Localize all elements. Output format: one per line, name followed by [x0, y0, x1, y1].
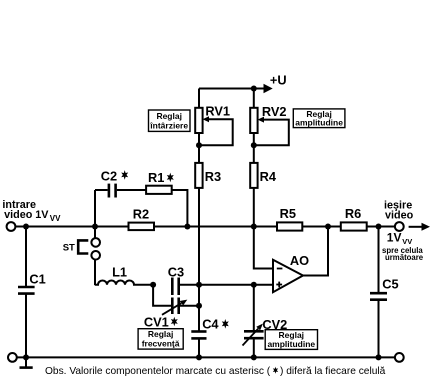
svg-text:R4: R4: [260, 169, 277, 184]
svg-text:Obs. Valorile componentelor ma: Obs. Valorile componentelor marcate cu a…: [45, 366, 271, 377]
svg-text:) diferă la fiecare celulă: ) diferă la fiecare celulă: [280, 366, 386, 377]
svg-text:C2: C2: [101, 169, 117, 184]
svg-text:CV2: CV2: [262, 317, 287, 332]
svg-text:RV1: RV1: [205, 104, 230, 119]
svg-text:următoare: următoare: [385, 253, 424, 262]
svg-text:R3: R3: [205, 169, 221, 184]
svg-text:Reglaj: Reglaj: [156, 111, 182, 121]
svg-text:video 1V: video 1V: [4, 209, 49, 221]
svg-text:R2: R2: [133, 207, 149, 222]
svg-text:VV: VV: [50, 214, 61, 223]
svg-text:VV: VV: [402, 237, 412, 246]
svg-text:ST: ST: [63, 242, 75, 253]
svg-text:R6: R6: [345, 206, 361, 221]
svg-text:R5: R5: [280, 206, 296, 221]
svg-text:amplitudine: amplitudine: [267, 339, 315, 349]
svg-text:AO: AO: [290, 253, 309, 268]
svg-text:C5: C5: [382, 276, 398, 291]
svg-text:C4: C4: [202, 316, 219, 331]
svg-text:C1: C1: [29, 271, 45, 286]
svg-text:C3: C3: [168, 264, 184, 279]
svg-text:video: video: [385, 209, 414, 221]
svg-text:amplitudine: amplitudine: [295, 118, 343, 128]
svg-text:L1: L1: [112, 265, 127, 280]
svg-text:frecvenţă: frecvenţă: [142, 339, 180, 349]
svg-text:+U: +U: [270, 73, 287, 88]
svg-text:CV1: CV1: [144, 314, 169, 329]
svg-text:întârziere: întârziere: [149, 121, 188, 131]
svg-text:1V: 1V: [387, 231, 402, 245]
svg-text:R1: R1: [148, 170, 164, 185]
svg-text:RV2: RV2: [262, 104, 287, 119]
